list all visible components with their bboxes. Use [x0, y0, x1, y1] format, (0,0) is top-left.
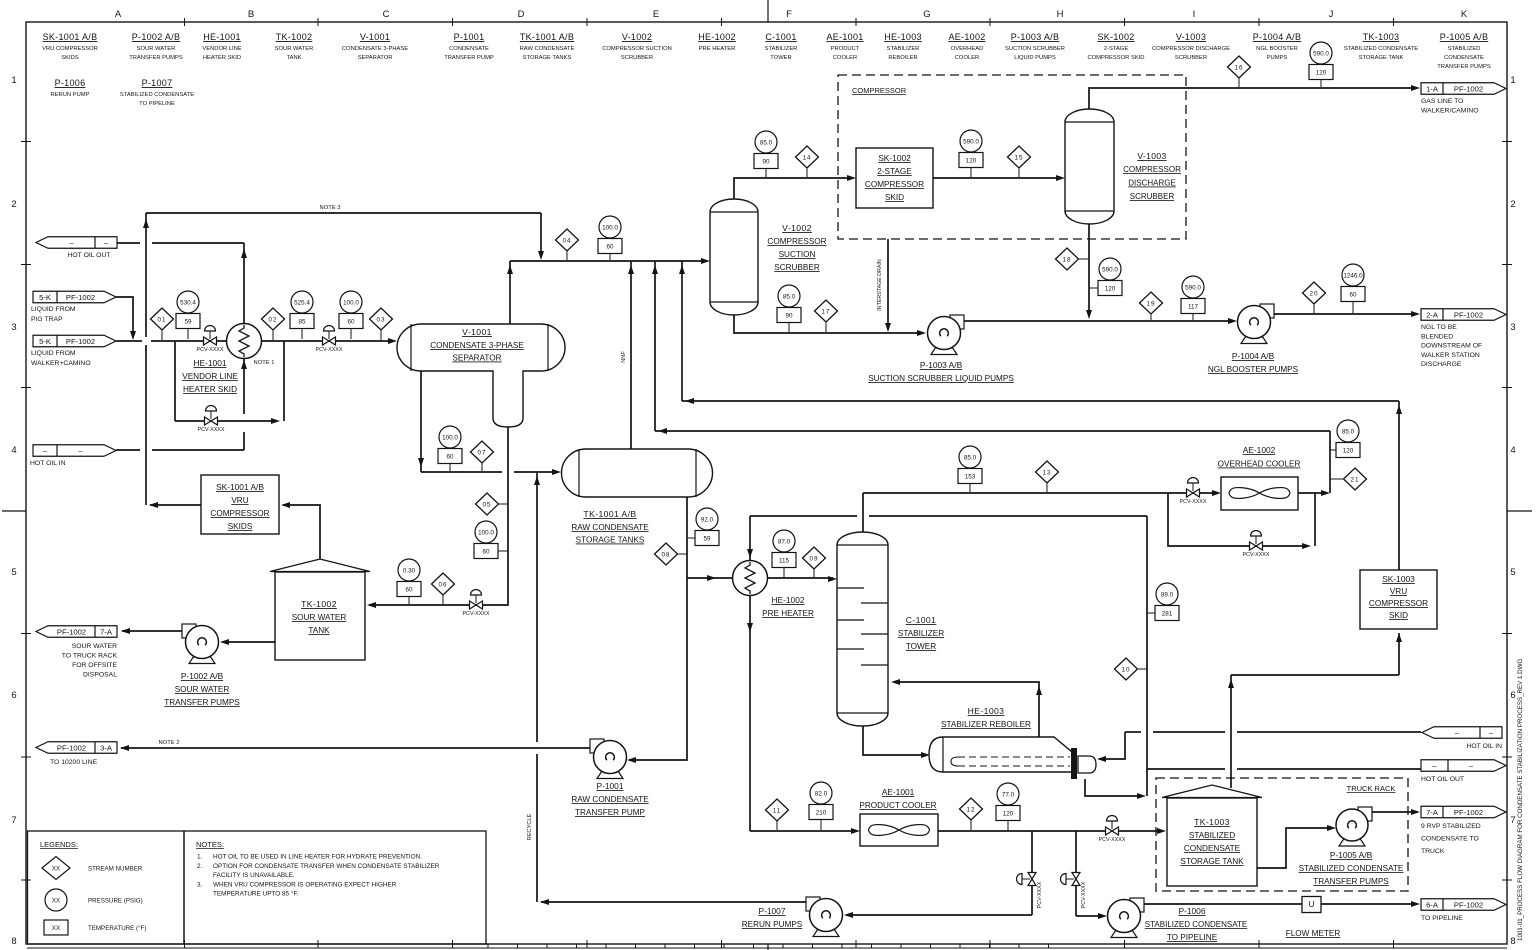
svg-text:OPTION FOR CONDENSATE TRANSFER: OPTION FOR CONDENSATE TRANSFER WHEN COND…	[213, 863, 440, 870]
svg-text:59: 59	[184, 318, 192, 325]
svg-text:TK-1001 A/B: TK-1001 A/B	[583, 509, 636, 519]
svg-text:VRU COMPRESSOR: VRU COMPRESSOR	[42, 46, 98, 52]
svg-text:P-1007: P-1007	[142, 78, 173, 88]
svg-text:TEMPERATURE (°F): TEMPERATURE (°F)	[88, 925, 146, 932]
svg-text:P-1001: P-1001	[454, 32, 485, 42]
wire AE-1002 bypass	[1168, 493, 1315, 549]
wire V-1001 gas outlet to suction header	[507, 258, 710, 324]
svg-text:U: U	[1309, 900, 1315, 909]
stream number 19	[1150, 303, 1152, 320]
svg-text:TK-1003: TK-1003	[1363, 32, 1400, 42]
svg-text:11: 11	[773, 807, 782, 814]
pump P-1003 suction scrubber liquid	[868, 315, 1014, 383]
svg-text:2-STAGE: 2-STAGE	[877, 167, 912, 176]
instrument pressure 525.4 temp 85	[301, 329, 303, 340]
svg-text:AE-1001: AE-1001	[882, 787, 915, 797]
svg-text:85.0: 85.0	[1342, 428, 1355, 435]
wire TK-1001 outlet to P-1001	[627, 497, 687, 763]
svg-text:85.0: 85.0	[783, 293, 796, 300]
svg-text:TK-1002: TK-1002	[301, 599, 337, 609]
svg-text:V-1003: V-1003	[1176, 32, 1206, 42]
instrument pressure 100.0 temp 60 suction header	[609, 254, 611, 261]
svg-text:0.30: 0.30	[403, 567, 416, 574]
svg-text:BLENDED: BLENDED	[1421, 333, 1453, 340]
instrument pressure 85.0 temp 90 scrubber bottoms	[788, 323, 790, 333]
svg-text:NNF: NNF	[621, 351, 627, 363]
instrument pressure 85.0 temp 153 overhead	[969, 484, 971, 493]
svg-text:17: 17	[821, 308, 830, 315]
valve PCV main line downstream	[323, 337, 330, 345]
svg-text:STORAGE TANKS: STORAGE TANKS	[576, 536, 645, 545]
wire SK-1002 discharge to V-1003	[933, 175, 1065, 181]
stream number 03	[380, 319, 382, 340]
svg-text:P-1006: P-1006	[55, 78, 86, 88]
package SK-1003 VRU compressor skid	[1360, 570, 1437, 629]
instrument pressure 100.0 temp 60 heater outlet	[350, 329, 352, 340]
svg-text:GAS LINE TO: GAS LINE TO	[1421, 98, 1463, 105]
svg-text:12: 12	[966, 806, 975, 813]
wire TK-1001 to HE-1002 feed	[687, 575, 837, 582]
svg-text:V-1001: V-1001	[462, 327, 492, 337]
svg-text:PRE HEATER: PRE HEATER	[699, 46, 736, 52]
instrument pressure 100.0 temp 60 water boot	[486, 550, 508, 552]
heat exchanger HE-1001 line heater	[182, 324, 274, 395]
instrument pressure 87.0 temp 115 preheater outlet	[783, 568, 785, 578]
off-page connector PF-1002 3-A to 10200 line	[36, 742, 117, 766]
off-page connector PF-1002 7-A sour water to truck rack	[36, 626, 117, 679]
off-page connector 1-A PF-1002 gas line	[1421, 83, 1506, 115]
svg-text:WALKER+CAMINO: WALKER+CAMINO	[31, 360, 91, 367]
svg-text:NOTES:: NOTES:	[196, 840, 224, 849]
wire product branch to P-1006	[1076, 831, 1107, 919]
wire HE-1001 bypass	[175, 341, 284, 424]
svg-text:60: 60	[446, 453, 454, 460]
svg-text:SUCTION SCRUBBER: SUCTION SCRUBBER	[1005, 46, 1065, 52]
svg-text:PCV-XXXX: PCV-XXXX	[1081, 881, 1087, 908]
wire C-1001 bottoms to reboiler	[863, 726, 930, 758]
off-page connector 5-K PF-1002 liquid from pig trap	[31, 291, 116, 323]
svg-text:REBOILER: REBOILER	[888, 55, 917, 61]
svg-text:HE-1001: HE-1001	[203, 32, 241, 42]
svg-text:RERUN PUMPS: RERUN PUMPS	[742, 920, 803, 929]
svg-text:TO TRUCK RACK: TO TRUCK RACK	[62, 653, 118, 660]
svg-text:STABILIZED CONDENSATE: STABILIZED CONDENSATE	[120, 92, 194, 98]
svg-text:TOWER: TOWER	[770, 55, 791, 61]
svg-text:P-1005 A/B: P-1005 A/B	[1440, 32, 1489, 42]
svg-text:CONDENSATE: CONDENSATE	[1444, 55, 1484, 61]
wire hot oil in header (left)	[116, 358, 247, 450]
svg-text:120: 120	[1003, 810, 1014, 817]
wire V-1003 gas to pipeline	[1089, 85, 1420, 109]
svg-text:SUCTION SCRUBBER LIQUID PUMPS: SUCTION SCRUBBER LIQUID PUMPS	[868, 374, 1014, 383]
wire SK-1001 suction from TK-1002	[281, 502, 320, 560]
svg-text:STABILIZED: STABILIZED	[1189, 831, 1235, 840]
svg-text:FACILITY IS UNAVAILABLE.: FACILITY IS UNAVAILABLE.	[213, 872, 295, 879]
svg-text:153: 153	[965, 473, 976, 480]
svg-text:CONDENSATE: CONDENSATE	[449, 46, 489, 52]
svg-text:RAW CONDENSATE: RAW CONDENSATE	[571, 795, 649, 804]
stream number 20	[1313, 293, 1315, 313]
svg-text:RECYCLE: RECYCLE	[527, 814, 533, 841]
svg-text:VRU: VRU	[1390, 587, 1407, 596]
svg-text:7-A: 7-A	[1426, 808, 1439, 817]
svg-text:15: 15	[1014, 154, 1023, 161]
svg-text:87.0: 87.0	[778, 538, 791, 545]
svg-text:SCRUBBER: SCRUBBER	[1175, 55, 1207, 61]
svg-text:WHEN VRU COMPRESSOR IS OPERATI: WHEN VRU COMPRESSOR IS OPERATING EXPECT …	[213, 881, 397, 888]
svg-text:120: 120	[1105, 285, 1116, 292]
instrument pressure 590.0 temp 120 V-1003 bottoms	[1090, 287, 1110, 289]
svg-text:90: 90	[762, 158, 770, 165]
svg-text:590.0: 590.0	[1185, 284, 1201, 291]
svg-text:TEMPERATURE UPTO 85 °F.: TEMPERATURE UPTO 85 °F.	[213, 890, 299, 898]
svg-text:6: 6	[1510, 690, 1515, 701]
svg-text:TOWER: TOWER	[906, 642, 936, 651]
svg-text:WALKER STATION: WALKER STATION	[1421, 352, 1480, 359]
svg-text:120: 120	[966, 157, 977, 164]
svg-text:281: 281	[1162, 610, 1173, 617]
svg-text:03: 03	[376, 316, 385, 323]
stream number 10	[1126, 668, 1147, 670]
stream number 01	[161, 319, 163, 340]
off-page connector 5-K PF-1002 liquid from walker+camino	[31, 335, 116, 367]
svg-text:COOLER: COOLER	[955, 55, 979, 61]
svg-text:C-1001: C-1001	[765, 32, 796, 42]
svg-text:7: 7	[1510, 815, 1515, 826]
instrument pressure 590.0 temp 117 NGL line	[1192, 314, 1194, 321]
svg-text:7-A: 7-A	[100, 627, 113, 636]
svg-text:590.0: 590.0	[1313, 50, 1329, 57]
svg-text:TRANSFER PUMPS: TRANSFER PUMPS	[164, 698, 240, 707]
svg-text:AE-1002: AE-1002	[948, 32, 985, 42]
wire main inlet line to V-1001	[116, 338, 397, 344]
svg-text:COMPRESSOR: COMPRESSOR	[210, 509, 269, 518]
column C-1001 stabilizer tower	[837, 532, 944, 726]
svg-text:STORAGE TANK: STORAGE TANK	[1359, 55, 1404, 61]
svg-text:HOT OIL OUT: HOT OIL OUT	[1421, 776, 1464, 783]
instrument pressure 1246.0 temp 60 NGL discharge	[1352, 302, 1354, 314]
wire AE-1001 outlet to TK-1003	[938, 828, 1166, 834]
stream number 17	[825, 311, 827, 332]
svg-text:82.0: 82.0	[815, 790, 828, 797]
instrument pressure 0.30 temp 60 sour water	[408, 597, 410, 605]
stream number 08	[666, 553, 687, 555]
svg-text:SEPARATOR: SEPARATOR	[358, 55, 393, 61]
svg-text:20: 20	[1309, 290, 1318, 297]
svg-text:NGL BOOSTER PUMPS: NGL BOOSTER PUMPS	[1208, 365, 1299, 374]
svg-text:SKIDS: SKIDS	[61, 55, 79, 61]
svg-text:DISCHARGE: DISCHARGE	[1128, 179, 1176, 188]
svg-text:FLOW METER: FLOW METER	[1286, 929, 1341, 938]
wire hot oil in (right) to reboiler	[1097, 732, 1421, 762]
off-page connector HOT OIL OUT (left)	[36, 237, 117, 259]
svg-text:COMPRESSOR: COMPRESSOR	[865, 180, 924, 189]
instrument pressure 85.0 temp 120 cooled overhead	[1330, 449, 1348, 451]
svg-text:STABILIZER: STABILIZER	[765, 46, 798, 52]
svg-text:HOT OIL OUT: HOT OIL OUT	[67, 252, 110, 259]
svg-text:SOUR WATER: SOUR WATER	[175, 685, 230, 694]
svg-text:COMPRESSOR: COMPRESSOR	[1123, 165, 1181, 174]
svg-text:85: 85	[298, 318, 306, 325]
svg-text:210: 210	[816, 809, 827, 816]
instrument pressure 77.0 temp 120 product cooler outlet	[1007, 821, 1009, 831]
svg-text:RAW CONDENSATE: RAW CONDENSATE	[520, 46, 575, 52]
svg-text:SKID: SKID	[885, 193, 904, 202]
wire hot oil out header (left)	[117, 243, 247, 324]
svg-text:H: H	[1057, 9, 1064, 20]
svg-text:RAW CONDENSATE: RAW CONDENSATE	[571, 523, 649, 532]
svg-text:60: 60	[482, 548, 490, 555]
svg-text:NOTE 2: NOTE 2	[159, 740, 180, 746]
instrument pressure 590.0 temp 120 gas line	[1320, 80, 1322, 88]
svg-text:COMPRESSOR: COMPRESSOR	[767, 237, 826, 246]
package SK-1001 VRU compressor skids	[201, 475, 279, 534]
dashed package boundary COMPRESSOR	[838, 75, 1186, 239]
svg-text:TANK: TANK	[286, 55, 301, 61]
legends box	[28, 831, 185, 944]
svg-text:PRESSURE (PSIG): PRESSURE (PSIG)	[88, 898, 143, 905]
svg-text:TO PIPELINE: TO PIPELINE	[139, 101, 175, 107]
svg-text:SOUR WATER: SOUR WATER	[137, 46, 176, 52]
air cooler AE-1002 overhead cooler	[1218, 445, 1301, 510]
svg-text:C: C	[383, 9, 390, 20]
stream number 13	[1046, 472, 1048, 492]
svg-text:TRANSFER PUMP: TRANSFER PUMP	[575, 808, 646, 817]
svg-text:COMPRESSOR SUCTION: COMPRESSOR SUCTION	[602, 46, 672, 52]
svg-text:PRE HEATER: PRE HEATER	[762, 609, 814, 618]
svg-text:6-A: 6-A	[1426, 900, 1439, 909]
svg-text:60: 60	[405, 586, 413, 593]
wire NGL line P-1003 to P-1004	[963, 318, 1237, 324]
svg-text:NGL TO BE: NGL TO BE	[1421, 324, 1457, 331]
svg-text:HE-1002: HE-1002	[771, 595, 804, 605]
svg-text:06: 06	[438, 581, 447, 588]
valve PCV sour water to tank	[470, 601, 477, 609]
svg-text:C-1001: C-1001	[906, 615, 937, 625]
svg-text:COMPRESSOR: COMPRESSOR	[852, 86, 907, 95]
svg-text:WALKER/CAMINO: WALKER/CAMINO	[1421, 108, 1479, 115]
svg-text:STABILIZED: STABILIZED	[1448, 46, 1481, 52]
svg-text:P-1001: P-1001	[596, 781, 623, 791]
svg-text:COMPRESSOR DISCHARGE: COMPRESSOR DISCHARGE	[1152, 46, 1230, 52]
svg-text:PCV-XXXX: PCV-XXXX	[198, 427, 225, 433]
heat exchanger HE-1002 pre heater	[733, 561, 814, 619]
wire reboiler vapor return	[891, 679, 1042, 737]
valve PCV main line upstream	[204, 337, 211, 345]
svg-text:SCRUBBER: SCRUBBER	[621, 55, 653, 61]
svg-text:V-1002: V-1002	[622, 32, 652, 42]
svg-text:16: 16	[1234, 64, 1243, 71]
svg-text:590.0: 590.0	[963, 138, 979, 145]
wire overhead gas return to header	[652, 261, 1330, 493]
package SK-1002 2-stage compressor skid	[856, 148, 933, 208]
svg-text:P-1003 A/B: P-1003 A/B	[920, 360, 963, 370]
svg-text:2.: 2.	[197, 863, 203, 870]
svg-text:INTERSTAGE DRAIN: INTERSTAGE DRAIN	[877, 259, 883, 311]
svg-text:117: 117	[1188, 303, 1199, 310]
svg-text:100.0: 100.0	[343, 299, 359, 306]
svg-text:6: 6	[11, 690, 16, 701]
stream number 12	[970, 809, 972, 830]
svg-text:21: 21	[1350, 476, 1359, 483]
svg-text:CONDENSATE: CONDENSATE	[1184, 844, 1241, 853]
svg-text:TK-1001 A/B: TK-1001 A/B	[520, 32, 574, 42]
wire NOTE 3 VRU gas line	[143, 205, 544, 505]
svg-text:1: 1	[11, 75, 16, 86]
svg-text:SK-1001 A/B: SK-1001 A/B	[43, 32, 98, 42]
svg-text:SUCTION: SUCTION	[779, 250, 816, 259]
svg-text:TRANSFER PUMPS: TRANSFER PUMPS	[1437, 64, 1491, 70]
off-page connector 2-A PF-1002 NGL	[1421, 309, 1506, 368]
dashed package boundary TRUCK RACK	[1156, 778, 1408, 891]
svg-text:PUMPS: PUMPS	[1267, 55, 1288, 61]
svg-text:59: 59	[703, 535, 711, 542]
svg-text:XX: XX	[52, 866, 61, 873]
svg-text:HE-1003: HE-1003	[884, 32, 922, 42]
instrument pressure 590.0 temp 120 compressor discharge	[970, 168, 972, 178]
wire product branch to P-1007	[844, 831, 1032, 918]
svg-text:85.0: 85.0	[760, 139, 773, 146]
svg-text:NGL BOOSTER: NGL BOOSTER	[1256, 46, 1298, 52]
svg-text:A: A	[115, 9, 122, 20]
svg-text:5-K: 5-K	[39, 293, 51, 302]
svg-text:85.0: 85.0	[964, 454, 977, 461]
pump P-1001 raw condensate transfer	[571, 739, 649, 817]
svg-text:PF-1002: PF-1002	[66, 293, 95, 302]
svg-text:COMPRESSOR: COMPRESSOR	[1369, 599, 1428, 608]
svg-text:K: K	[1461, 9, 1468, 20]
svg-text:9 RVP STABILIZED: 9 RVP STABILIZED	[1421, 823, 1481, 830]
notes box	[184, 831, 486, 944]
svg-text:FOR OFFSITE: FOR OFFSITE	[72, 662, 117, 669]
svg-text:STABILIZER REBOILER: STABILIZER REBOILER	[941, 720, 1031, 729]
svg-text:RERUN PUMP: RERUN PUMP	[51, 92, 90, 98]
stream number 18	[1067, 258, 1089, 260]
svg-text:I: I	[1193, 9, 1196, 20]
svg-text:LIQUID FROM: LIQUID FROM	[31, 350, 76, 357]
stream number 14	[806, 157, 808, 177]
svg-text:1001-01_PROCESS FLOW DIAGRAM F: 1001-01_PROCESS FLOW DIAGRAM FOR CONDENS…	[1517, 659, 1524, 941]
instrument pressure 100.0 temp 60 condensate line	[449, 464, 451, 472]
svg-text:PRODUCT COOLER: PRODUCT COOLER	[859, 801, 936, 810]
svg-text:PF-1002: PF-1002	[57, 743, 86, 752]
svg-text:89.0: 89.0	[1161, 591, 1174, 598]
svg-text:60: 60	[606, 243, 614, 250]
svg-text:HE-1001: HE-1001	[193, 358, 226, 368]
stream number 06	[442, 584, 444, 604]
svg-text:STABILIZER: STABILIZER	[887, 46, 920, 52]
svg-text:B: B	[248, 9, 254, 20]
svg-text:DISCHARGE: DISCHARGE	[1421, 361, 1462, 368]
air cooler AE-1001 product cooler	[859, 787, 938, 846]
svg-text:PIG TRAP: PIG TRAP	[31, 316, 63, 323]
svg-text:5: 5	[11, 567, 16, 578]
svg-text:SCRUBBER: SCRUBBER	[1130, 192, 1175, 201]
svg-text:SOUR WATER: SOUR WATER	[275, 46, 314, 52]
svg-text:V-1001: V-1001	[360, 32, 390, 42]
grid column letters	[115, 9, 1468, 20]
svg-text:HOT OIL IN: HOT OIL IN	[30, 460, 66, 467]
flow meter	[1286, 897, 1341, 939]
svg-text:PCV-XXXX: PCV-XXXX	[316, 347, 343, 353]
svg-text:PCV-XXXX: PCV-XXXX	[1180, 499, 1207, 505]
wire TK-1002 to P-1002	[220, 639, 275, 645]
svg-text:AE-1001: AE-1001	[826, 32, 863, 42]
svg-text:E: E	[653, 9, 659, 20]
wire reboiler product outlet	[1085, 779, 1146, 799]
svg-text:01: 01	[157, 316, 166, 323]
tank TK-1002 sour water	[270, 559, 370, 660]
stream number 09	[813, 558, 815, 577]
svg-text:V-1003: V-1003	[1137, 151, 1166, 161]
wire recycle line	[527, 472, 540, 902]
svg-text:05: 05	[482, 501, 491, 508]
svg-text:100.0: 100.0	[442, 434, 458, 441]
svg-text:2-A: 2-A	[1426, 310, 1439, 319]
off-page connector 6-A PF-1002 to pipeline	[1421, 899, 1506, 922]
svg-text:8: 8	[1510, 936, 1515, 947]
svg-text:PF-1002: PF-1002	[1454, 310, 1483, 319]
wire P-1006 discharge to pipeline	[1143, 901, 1420, 907]
svg-text:3.: 3.	[197, 881, 203, 888]
svg-text:SK-1002: SK-1002	[878, 153, 911, 163]
svg-text:92.0: 92.0	[701, 516, 714, 523]
svg-text:60: 60	[1349, 291, 1357, 298]
svg-text:P-1004 A/B: P-1004 A/B	[1232, 351, 1275, 361]
svg-text:590.0: 590.0	[1102, 266, 1118, 273]
svg-text:3-A: 3-A	[100, 743, 113, 752]
wire P-1004 discharge NGL	[1274, 311, 1420, 317]
svg-text:TRANSFER PUMP: TRANSFER PUMP	[444, 55, 494, 61]
svg-text:LIQUID FROM: LIQUID FROM	[31, 306, 76, 313]
svg-text:DISPOSAL: DISPOSAL	[83, 672, 117, 679]
stream number 16	[1238, 67, 1240, 87]
svg-text:HE-1003: HE-1003	[968, 706, 1005, 716]
wire V-1003 bottoms	[1086, 224, 1092, 319]
svg-text:HEATER SKID: HEATER SKID	[203, 55, 241, 61]
wire V-1002 bottoms to P-1003	[734, 314, 926, 336]
svg-text:P-1006: P-1006	[1178, 906, 1205, 916]
svg-text:STREAM NUMBER: STREAM NUMBER	[88, 866, 143, 873]
svg-text:PF-1002: PF-1002	[1454, 808, 1483, 817]
wire feed 5-K pig trap drop	[116, 297, 136, 340]
svg-text:TO PIPELINE: TO PIPELINE	[1421, 915, 1463, 922]
stream number 15	[1018, 157, 1020, 177]
svg-text:SK-1002: SK-1002	[1097, 32, 1134, 42]
svg-text:5: 5	[1510, 567, 1515, 578]
svg-text:PF-1002: PF-1002	[1454, 900, 1483, 909]
wire TK-1003 to P-1005	[1257, 825, 1336, 868]
off-page connector HOT OIL IN (right)	[1422, 727, 1502, 750]
svg-text:525.4: 525.4	[294, 299, 310, 306]
svg-text:SOUR WATER: SOUR WATER	[72, 643, 117, 650]
stream number 21	[1330, 478, 1355, 480]
svg-text:4: 4	[1510, 445, 1515, 456]
svg-text:TANK: TANK	[308, 626, 330, 635]
svg-text:02: 02	[268, 316, 277, 323]
vessel V-1003 compressor discharge scrubber	[1065, 109, 1181, 224]
wire P-1005 discharge to truck	[1370, 809, 1420, 815]
tank TK-1001 raw condensate storage	[562, 449, 713, 545]
svg-text:TRANSFER PUMPS: TRANSFER PUMPS	[129, 55, 183, 61]
svg-text:STABILIZED CONDENSATE: STABILIZED CONDENSATE	[1145, 920, 1247, 929]
svg-text:09: 09	[809, 555, 818, 562]
svg-text:HOT OIL TO BE USED IN LINE HEA: HOT OIL TO BE USED IN LINE HEATER FOR HY…	[213, 854, 422, 861]
stream number 07	[481, 452, 483, 471]
svg-text:PRODUCT: PRODUCT	[831, 46, 860, 52]
svg-text:04: 04	[562, 237, 571, 244]
svg-text:3: 3	[11, 322, 16, 333]
